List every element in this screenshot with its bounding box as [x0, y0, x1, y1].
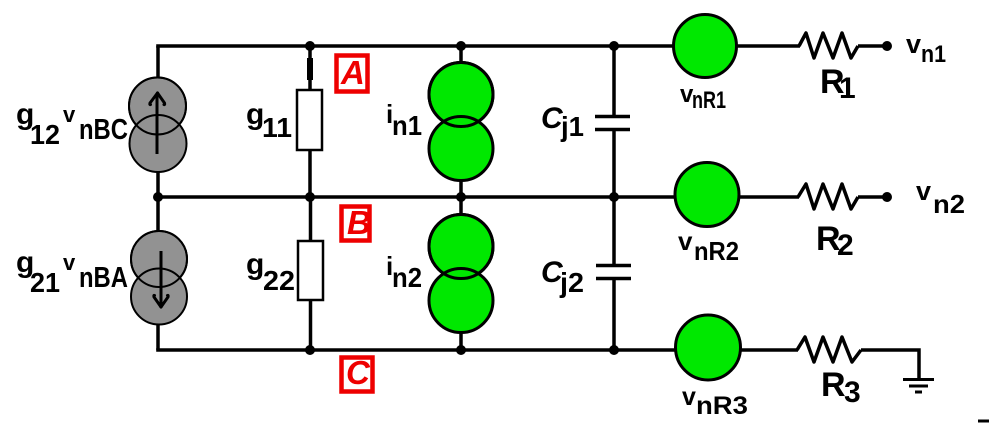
ground [903, 380, 934, 393]
svg-text:v: v [906, 29, 921, 59]
resistor g22 [298, 197, 323, 350]
label in2 [386, 251, 422, 293]
junction rail C / Cj2 [609, 345, 619, 355]
label Cj2 [541, 256, 584, 298]
wire R2 to terminal [858, 195, 884, 199]
svg-text:nR1: nR1 [692, 87, 726, 114]
wire rail node C [156, 348, 676, 352]
wire R1 to terminal [858, 44, 884, 48]
svg-text:nR3: nR3 [696, 392, 748, 420]
svg-text:2: 2 [837, 229, 854, 262]
noise current source in1 [429, 63, 493, 181]
svg-text:22: 22 [263, 265, 295, 296]
label R2 [816, 220, 854, 262]
resistor R1 [799, 33, 858, 58]
svg-text:v: v [63, 250, 76, 275]
current source g12vnBC [129, 78, 187, 173]
svg-text:12: 12 [30, 119, 60, 150]
label vnR1 [680, 81, 726, 114]
svg-text:21: 21 [30, 267, 60, 298]
capacitor Cj1 [595, 46, 630, 197]
junction rail B / in2 [456, 192, 466, 202]
svg-text:A: A [340, 54, 365, 91]
svg-text:j1: j1 [560, 111, 584, 142]
junction rail A / in1 [456, 41, 466, 51]
svg-text:v: v [682, 383, 696, 411]
label g12vnBC [16, 98, 128, 150]
label g22 [246, 248, 295, 296]
wire row2 to R2 [739, 195, 799, 199]
node A label box [337, 54, 368, 92]
node B label box [342, 204, 371, 241]
node vn1 terminal [882, 41, 892, 51]
svg-text:B: B [347, 204, 371, 241]
svg-text:1: 1 [839, 72, 856, 105]
svg-text:C: C [346, 354, 371, 391]
svg-text:g: g [246, 248, 264, 281]
svg-text:n1: n1 [392, 110, 422, 141]
svg-text:nR2: nR2 [694, 236, 739, 266]
junction rail A / g11 [305, 41, 315, 51]
wire row1 to R1 [736, 44, 800, 48]
junction rail B / Cj2 [609, 192, 619, 202]
svg-text:nBC: nBC [79, 114, 128, 146]
resistor R3 [797, 337, 861, 362]
svg-text:v: v [63, 102, 76, 127]
label Cj1 [541, 102, 584, 142]
svg-text:R: R [821, 366, 846, 404]
noise current source in2 [429, 215, 493, 333]
label vnR3 [682, 383, 748, 420]
label vn2 [916, 176, 965, 219]
svg-text:v: v [916, 176, 931, 206]
stray dash mark [978, 420, 989, 423]
junction rail B / g22 [305, 192, 315, 202]
node C label box [342, 354, 373, 392]
label R1 [820, 63, 856, 105]
junction rail C / g22 [305, 345, 315, 355]
wire row3 to R3 [740, 348, 798, 352]
node vn2 terminal [882, 192, 892, 202]
noise voltage source vnR2 [675, 163, 739, 227]
capacitor Cj2 [596, 197, 631, 350]
label R3 [821, 366, 861, 409]
wire R3 to ground [861, 350, 919, 379]
label g11 [246, 98, 292, 143]
wire noise column [459, 46, 463, 350]
label in1 [386, 99, 422, 141]
svg-text:11: 11 [262, 112, 292, 143]
svg-text:v: v [678, 226, 693, 256]
label g21vnBA [16, 246, 128, 298]
junction rail B left [153, 192, 163, 202]
svg-text:n2: n2 [933, 189, 965, 219]
svg-text:3: 3 [844, 376, 861, 409]
noise voltage source vnR1 [674, 15, 737, 78]
resistor g11 [297, 46, 322, 197]
svg-text:n2: n2 [392, 262, 422, 293]
svg-text:j2: j2 [559, 267, 584, 298]
current source g21vnBA [131, 231, 187, 325]
junction rail C / in2 [456, 345, 466, 355]
label vn1 [906, 29, 946, 68]
resistor R2 [798, 184, 858, 209]
label vnR2 [678, 226, 739, 266]
svg-text:nBA: nBA [79, 262, 128, 294]
wire rail node B [156, 195, 676, 199]
svg-text:n1: n1 [921, 41, 946, 68]
wire rail node A [156, 44, 676, 48]
wire left vertical bus [156, 46, 160, 350]
noise voltage source vnR3 [676, 315, 741, 380]
junction rail A / Cj1 [609, 41, 619, 51]
